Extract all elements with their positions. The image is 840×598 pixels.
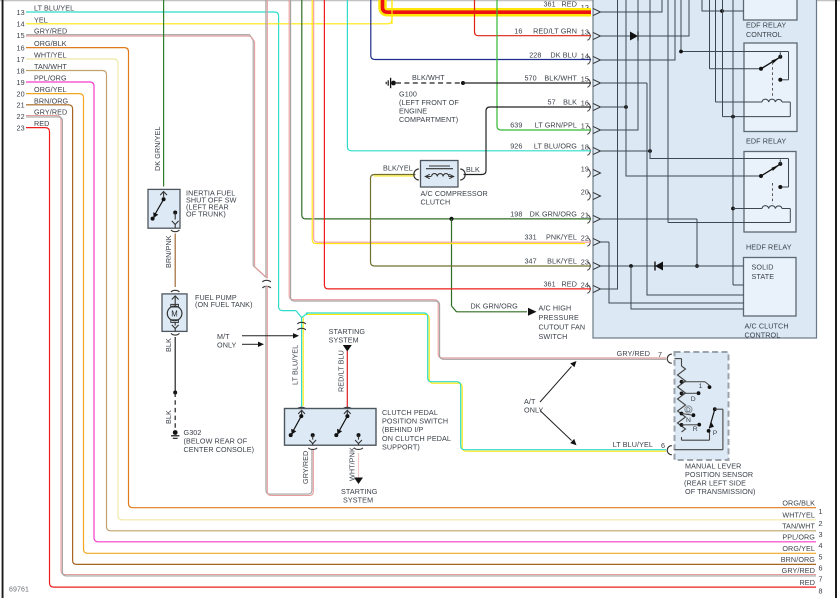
svg-text:PNK/YEL: PNK/YEL (546, 232, 577, 241)
svg-text:7: 7 (658, 350, 662, 359)
svg-text:16: 16 (514, 26, 522, 35)
clutch switch 1 (289, 410, 316, 445)
svg-text:ON CLUTCH PEDAL: ON CLUTCH PEDAL (382, 434, 451, 443)
wire 228 DK BLU (371, 0, 591, 60)
EDF relay control box (top, cut off) (744, 0, 798, 20)
svg-text:HEDF RELAY: HEDF RELAY (746, 243, 792, 252)
clutch switch 2 (334, 410, 362, 445)
HEDF relay internals (759, 159, 782, 208)
svg-text:M: M (171, 310, 178, 319)
wire GRY/RED loop to right edge (26, 116, 816, 576)
label DK GRN/YEL vertical (153, 126, 162, 171)
wire ORG/BLK loop to right edge (26, 48, 816, 508)
wire RED loop to right edge (26, 128, 816, 587)
module wire pin15 to solid state (601, 83, 744, 295)
svg-text:BLK/WHT: BLK/WHT (412, 73, 445, 82)
svg-text:BRN/ORG: BRN/ORG (34, 96, 69, 105)
sensor contact P (707, 429, 718, 437)
wire BRN/ORG loop to right edge (26, 105, 816, 565)
wire 198 DK GRN/ORG (302, 0, 591, 219)
module wire pin23 to solid state (601, 265, 744, 267)
svg-text:1: 1 (699, 383, 703, 390)
arrow to A/C high pressure cutout fan switch (528, 308, 537, 316)
right edge label ORG/BLK pin 1 (782, 499, 822, 517)
svg-text:17: 17 (17, 55, 25, 64)
wire GRY/RED pin15 run (26, 35, 267, 279)
svg-text:ORG/BLK: ORG/BLK (34, 39, 67, 48)
svg-text:57: 57 (548, 97, 556, 106)
wire 331 PNK/YEL (312, 0, 591, 244)
EDF relay internals (759, 52, 782, 102)
left pin 17 label (17, 51, 67, 64)
right edge label RED pin 8 (800, 578, 823, 596)
M/T arrow to GRY/RED (242, 342, 264, 347)
svg-text:ORG/YEL: ORG/YEL (782, 544, 815, 553)
svg-text:SYSTEM: SYSTEM (343, 495, 373, 504)
wire PPL/ORG loop to right edge (26, 82, 816, 542)
sensor contact R (682, 423, 702, 433)
svg-text:A/C CLUTCH: A/C CLUTCH (745, 322, 789, 331)
wire 570 BLK/WHT solid segment (463, 82, 591, 84)
svg-text:DK GRN/ORG: DK GRN/ORG (530, 209, 578, 218)
module wire pin24 to top (601, 0, 618, 290)
svg-text:361: 361 (543, 0, 555, 9)
svg-text:15: 15 (17, 31, 25, 40)
EDF relay box (744, 43, 797, 132)
connector pin 14 arrow/labels (529, 50, 600, 64)
inertia fuel shut off switch box (148, 189, 180, 228)
label LT BLU/YEL 6 (613, 440, 665, 450)
inertia switch entry (160, 192, 167, 198)
label FUEL PUMP (195, 293, 253, 309)
svg-text:OF TRANSMISSION): OF TRANSMISSION) (685, 487, 756, 496)
junction EDF contact feed (679, 50, 683, 54)
svg-text:BRN/ORG: BRN/ORG (781, 555, 816, 564)
connector pin 16 arrow/labels (548, 97, 601, 111)
svg-text:CONTROL: CONTROL (746, 30, 782, 39)
svg-text:16: 16 (581, 99, 589, 108)
svg-text:RED/LT BLU: RED/LT BLU (337, 350, 346, 392)
label A/C CLUTCH CONTROL (745, 322, 789, 340)
svg-text:15: 15 (581, 75, 589, 84)
left pin 16 label (17, 39, 67, 52)
left pin 20 label (17, 85, 67, 98)
clutch pedal position switch box (285, 409, 377, 446)
wire WHT/PNK (358, 453, 360, 478)
junction on EDF control feed (720, 9, 724, 13)
svg-text:P: P (713, 430, 718, 437)
svg-text:8: 8 (819, 586, 823, 595)
module wire HEDF coil return (668, 0, 790, 223)
svg-text:926: 926 (510, 141, 522, 150)
HEDF relay box (744, 152, 796, 233)
junction pin18 riser (648, 149, 652, 153)
svg-text:CONTROL: CONTROL (745, 331, 781, 340)
label BLK at compressor (466, 165, 480, 174)
label GRY/RED 7 (617, 349, 662, 359)
svg-text:6: 6 (661, 441, 665, 450)
left pin 23 label (17, 119, 50, 132)
compressor clutch coil (425, 174, 454, 179)
svg-text:LT BLU/ORG: LT BLU/ORG (534, 141, 577, 150)
left pin 22 label (17, 108, 68, 121)
svg-text:CLUTCH: CLUTCH (421, 198, 451, 207)
label BLK/WHT at G100 (412, 73, 445, 82)
label STARTING SYSTEM top (329, 327, 366, 345)
svg-text:DK BLU: DK BLU (550, 50, 577, 59)
wire BLK dashed segment (174, 393, 176, 430)
label G100 location (399, 90, 459, 125)
module wire EDF control box feed (702, 0, 744, 12)
svg-text:198: 198 (510, 209, 522, 218)
compressor clutch plates (426, 166, 453, 169)
svg-text:331: 331 (524, 232, 536, 241)
in-line connector on GRY/RED (262, 280, 270, 288)
module wire pin21 (601, 218, 697, 220)
diode on pin13 wire (630, 32, 638, 41)
svg-text:EDF RELAY: EDF RELAY (746, 21, 786, 30)
A/T arrow to GRY/RED (540, 361, 577, 402)
svg-text:TAN/WHT: TAN/WHT (34, 62, 67, 71)
svg-text:R: R (693, 426, 698, 433)
svg-text:SYSTEM: SYSTEM (329, 335, 359, 344)
svg-text:RED/LT GRN: RED/LT GRN (533, 26, 577, 35)
fuel pump motor (167, 296, 182, 332)
right connector edge bar (835, 0, 837, 598)
label MANUAL LEVER POSITION SENSOR (684, 461, 756, 496)
svg-text:1: 1 (819, 507, 823, 516)
wire 639 LT GRN/PPL (497, 0, 591, 130)
wire DK GRN/ORG branch to cutout switch (452, 219, 528, 312)
connector pin 23 arrow/labels (524, 256, 600, 270)
compressor right paren (460, 169, 465, 180)
label A/C COMPRESSOR CLUTCH (421, 189, 488, 207)
A/T arrow to LT BLU/YEL (540, 411, 577, 446)
connector pin 18 arrow/labels (510, 141, 600, 155)
svg-text:228: 228 (529, 50, 541, 59)
svg-text:19: 19 (581, 165, 589, 174)
module wire pin16/HEDF blade common (626, 0, 761, 176)
connector pin 13 arrow/labels (514, 26, 600, 40)
inertia switch bottom connector arc (171, 230, 179, 232)
module wire EDF contact feed (681, 0, 789, 80)
svg-text:TAN/WHT: TAN/WHT (782, 522, 815, 531)
left pin 19 label (17, 74, 67, 87)
connector pin 17 arrow/labels (510, 120, 600, 134)
sensor taps (680, 380, 684, 427)
svg-text:WHT/PNK: WHT/PNK (348, 447, 357, 481)
svg-text:BLK: BLK (164, 338, 173, 352)
inertia switch output (172, 211, 179, 229)
wire BLK from fuel pump (174, 337, 176, 393)
fuel pump bottom connector arc (171, 333, 179, 335)
svg-text:N: N (686, 417, 691, 424)
svg-text:69761: 69761 (9, 587, 29, 594)
label LT BLU/YEL vertical (291, 345, 300, 385)
ground G302 symbol (171, 430, 179, 438)
svg-text:GRY/RED: GRY/RED (301, 451, 310, 484)
svg-text:RED: RED (800, 578, 815, 587)
svg-text:2: 2 (819, 519, 823, 528)
svg-text:20: 20 (17, 89, 25, 98)
svg-text:(BEHIND I/P: (BEHIND I/P (382, 425, 424, 434)
svg-text:ORG/BLK: ORG/BLK (782, 499, 815, 508)
module wire pin17 to top (601, 0, 638, 131)
svg-text:ORG/YEL: ORG/YEL (34, 85, 67, 94)
sensor blade to pin 6 (675, 409, 723, 450)
wire 570 BLK/WHT dashed segment (396, 82, 463, 84)
svg-text:LT GRN/PPL: LT GRN/PPL (535, 120, 577, 129)
sensor selector blade (709, 407, 716, 428)
connector pin 12 arrow/labels (543, 0, 600, 16)
label CLUTCH PEDAL POSITION SWITCH (382, 408, 451, 452)
drawing number (9, 587, 29, 594)
svg-text:23: 23 (17, 123, 25, 132)
label SOLID STATE (752, 263, 775, 282)
svg-text:18: 18 (17, 66, 25, 75)
wire 361 RED battery feed (fusible link) (383, 0, 592, 12)
svg-text:3: 3 (819, 530, 823, 539)
right edge label GRY/RED pin 7 (782, 566, 823, 584)
label BLK vertical lower (164, 410, 173, 424)
A/C-EDF control module panel (593, 0, 817, 338)
wire TAN/WHT loop to right edge (26, 71, 816, 531)
connector pin 24 arrow/labels (543, 279, 600, 293)
svg-text:23: 23 (581, 258, 589, 267)
connector pin 19 arrow/labels (581, 165, 601, 178)
wire LT BLU/YEL drop to clutch switch (301, 317, 303, 408)
svg-text:19: 19 (17, 78, 25, 87)
connector pin 22 arrow/labels (524, 232, 600, 246)
label BLK vertical upper (164, 338, 173, 352)
svg-text:GRY/RED: GRY/RED (617, 349, 650, 358)
svg-text:22: 22 (17, 112, 25, 121)
label RED/LT BLU vertical (337, 350, 346, 392)
sensor contact 1 (682, 382, 712, 390)
solid state box (744, 258, 797, 317)
left connector edge bar (2, 0, 4, 598)
wire 16 RED/LT GRN (475, 0, 592, 36)
fuel pump top connector arc (171, 290, 179, 292)
svg-text:GRY/RED: GRY/RED (782, 566, 815, 575)
svg-text:POSITION SWITCH: POSITION SWITCH (382, 417, 448, 426)
connector pin 20 arrow/labels (581, 188, 601, 201)
svg-text:14: 14 (17, 20, 25, 29)
svg-text:BLK/YEL: BLK/YEL (383, 164, 413, 173)
connector paren GRY/RED 7 (667, 354, 672, 363)
label STARTING SYSTEM bottom (341, 487, 378, 505)
svg-text:LT BLU/YEL: LT BLU/YEL (613, 440, 653, 449)
svg-text:YEL: YEL (34, 15, 48, 24)
svg-text:20: 20 (581, 188, 589, 197)
left pin 14 label (17, 15, 48, 28)
wire LT BLU/YEL branch to sensor (yellow stripe) (305, 314, 666, 451)
right edge label BRN/ORG pin 6 (781, 555, 823, 573)
svg-text:6: 6 (819, 564, 823, 573)
module wire EDF blade common (710, 0, 761, 69)
module wire EDF coil return (723, 0, 791, 117)
svg-text:LT BLU/YEL: LT BLU/YEL (34, 4, 74, 13)
svg-text:22: 22 (581, 234, 589, 243)
connector paren LT BLU/YEL 6 (667, 446, 672, 455)
wire 926 LT BLU/ORG (347, 0, 591, 151)
svg-text:CUTOUT FAN: CUTOUT FAN (539, 323, 586, 332)
svg-text:D: D (691, 396, 696, 403)
svg-text:BLK/WHT: BLK/WHT (544, 73, 577, 82)
svg-text:13: 13 (17, 8, 25, 17)
wire BLK/YEL to compressor (371, 175, 592, 267)
wire RED/LT BLU (346, 351, 348, 408)
ground G100 symbol (386, 78, 396, 88)
left pin 18 label (17, 62, 68, 75)
module wire pin12 to top (601, 0, 662, 13)
svg-text:(ON FUEL TANK): (ON FUEL TANK) (195, 300, 253, 309)
sensor contact D (682, 391, 701, 402)
junction DK GRN/ORG (449, 217, 453, 221)
label A/T ONLY (524, 397, 544, 415)
wire BRN/PNK (174, 234, 176, 288)
svg-text:CLUTCH PEDAL: CLUTCH PEDAL (382, 408, 438, 417)
svg-text:SOLID: SOLID (752, 263, 774, 272)
top border line (0, 0, 840, 2)
svg-text:DK GRN/YEL: DK GRN/YEL (153, 126, 162, 171)
label EDF RELAY CONTROL (746, 21, 786, 40)
wire LT BLU/YEL pin13 run (26, 12, 302, 318)
label BLK/YEL (383, 164, 413, 173)
label EDF RELAY (746, 137, 786, 146)
junction pin21 link (695, 264, 699, 268)
svg-text:EDF RELAY: EDF RELAY (746, 137, 786, 146)
junction pin23 branch (629, 264, 633, 268)
wire GRY/RED from fan section (top) (266, 0, 267, 278)
module wire pin18 riser (601, 150, 650, 152)
svg-text:PRESSURE: PRESSURE (539, 313, 579, 322)
wire ORG/YEL loop to right edge (26, 94, 816, 554)
left pin 21 label (17, 96, 69, 109)
svg-text:WHT/YEL: WHT/YEL (34, 51, 67, 60)
svg-text:RED: RED (562, 279, 577, 288)
svg-text:WHT/YEL: WHT/YEL (782, 511, 815, 520)
svg-text:CENTER CONSOLE): CENTER CONSOLE) (184, 445, 255, 454)
svg-text:RED: RED (34, 119, 49, 128)
left pin 13 label (17, 4, 75, 17)
label M/T ONLY (217, 332, 237, 350)
clutch switch exit arcs (308, 448, 363, 450)
svg-text:347: 347 (524, 256, 536, 265)
label INERTIA FUEL SHUT OFF SW (186, 188, 237, 218)
wire WHT/YEL loop to right edge (26, 59, 816, 520)
inertia switch contacts (151, 197, 166, 220)
module wire pin21 to pin23 link (696, 219, 698, 266)
svg-text:PPL/ORG: PPL/ORG (782, 533, 815, 542)
wire YEL pin14 (26, 0, 392, 24)
junction BLK/WHT (461, 81, 465, 85)
svg-text:BLK: BLK (563, 97, 577, 106)
connector pin 15 arrow/labels (524, 73, 600, 87)
svg-text:STATE: STATE (752, 272, 775, 281)
svg-text:570: 570 (524, 73, 536, 82)
module wire pin16 riser (601, 106, 626, 108)
starting system feed arrow (343, 345, 352, 352)
junction HEDF coil feed (731, 207, 735, 211)
svg-text:ONLY: ONLY (524, 405, 544, 414)
module wire pin22 to solid state (601, 242, 744, 303)
right edge label PPL/ORG pin 4 (782, 533, 822, 551)
svg-text:16: 16 (17, 43, 25, 52)
sensor contact D circled (685, 406, 692, 414)
sensor contact N (682, 413, 696, 424)
label GRY/RED vertical (301, 451, 310, 484)
right edge label WHT/YEL pin 2 (782, 511, 822, 529)
svg-text:21: 21 (17, 101, 25, 110)
module wire pin13 to top (601, 0, 689, 37)
A/C compressor clutch box (421, 161, 459, 188)
sensor resistor chain (675, 359, 710, 441)
wire LT BLU/YEL drop to clutch switch (yellow stripe) (302, 318, 304, 407)
right edge label ORG/YEL pin 5 (782, 544, 822, 562)
junction pin16 riser (624, 105, 628, 109)
wire DK GRN/YEL from top (163, 0, 165, 187)
svg-text:BLK: BLK (164, 410, 173, 424)
connector pin 21 arrow/labels (510, 209, 600, 223)
svg-text:DK GRN/ORG: DK GRN/ORG (471, 301, 519, 310)
fuel pump box (162, 294, 187, 332)
clutch switch entry arcs (297, 407, 352, 409)
junction EDF coil return (731, 115, 735, 119)
svg-text:RED: RED (562, 0, 577, 9)
svg-text:SUPPORT): SUPPORT) (382, 443, 420, 452)
svg-text:COMPARTMENT): COMPARTMENT) (399, 115, 458, 124)
svg-text:LT BLU/YEL: LT BLU/YEL (291, 345, 300, 385)
module wire pin23 branch to solid state (631, 266, 744, 309)
label HEDF RELAY (746, 243, 792, 252)
diode on pin23 wire (655, 262, 663, 271)
module wire pin14 to top (601, 0, 675, 61)
compressor left paren (414, 169, 419, 180)
wire YEL riser from pin14 (391, 0, 393, 24)
manual lever position sensor box (675, 352, 729, 460)
svg-text:SWITCH: SWITCH (539, 332, 568, 341)
starting system output arrow (354, 478, 363, 485)
wire 361 RED to pin24 (324, 0, 591, 289)
svg-text:361: 361 (543, 279, 555, 288)
svg-text:BRN/PNK: BRN/PNK (164, 235, 173, 268)
svg-text:4: 4 (819, 541, 823, 550)
svg-text:7: 7 (819, 575, 823, 584)
label WHT/PNK vertical (348, 447, 357, 481)
svg-text:OF TRUNK): OF TRUNK) (186, 210, 226, 219)
svg-text:BLK: BLK (466, 165, 480, 174)
svg-text:5: 5 (819, 553, 823, 562)
svg-text:639: 639 (510, 120, 522, 129)
module wire HEDF coil feed riser (733, 0, 744, 285)
svg-text:17: 17 (581, 122, 589, 131)
module wire HEDF contact feed (650, 0, 789, 187)
M/T arrow to LT BLU/YEL (242, 333, 299, 338)
svg-text:A/C HIGH: A/C HIGH (539, 304, 572, 313)
module wire EDF coil feed (716, 0, 763, 102)
svg-text:PPL/ORG: PPL/ORG (34, 74, 67, 83)
label A/C HIGH PRESSURE CUTOUT FAN SWITCH (539, 304, 586, 342)
svg-text:ONLY: ONLY (217, 340, 237, 349)
label G302 location (184, 428, 255, 454)
wire GRY/RED to clutch switch (266, 286, 313, 496)
in-line connector on LT BLU/YEL (297, 322, 305, 330)
right edge label TAN/WHT pin 3 (782, 522, 823, 540)
label DK GRN/ORG (471, 301, 519, 310)
svg-text:D: D (686, 407, 691, 414)
module wire HEDF coil feed (733, 208, 762, 210)
